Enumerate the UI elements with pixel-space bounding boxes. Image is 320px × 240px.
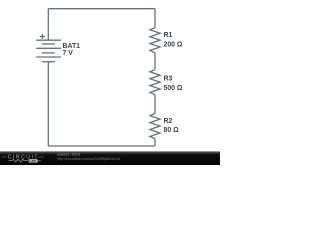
svg-text:R1: R1 xyxy=(164,32,173,39)
footer credit line xyxy=(57,153,80,157)
wire right middle 2 xyxy=(154,95,156,114)
label 80 ohm xyxy=(164,127,180,134)
label 7 V xyxy=(63,50,74,57)
svg-text:80 Ω: 80 Ω xyxy=(164,127,180,134)
svg-text:R3: R3 xyxy=(164,76,173,83)
svg-text:200 Ω: 200 Ω xyxy=(164,42,183,49)
wire right upper xyxy=(154,9,156,28)
footer bar xyxy=(0,151,220,165)
footer url line xyxy=(57,157,120,161)
resistor R3 xyxy=(150,70,160,95)
CircuitLab logo tail wire xyxy=(38,160,41,162)
resistor R2 xyxy=(150,114,160,139)
svg-text:500 Ω: 500 Ω xyxy=(164,85,183,92)
wire top rail xyxy=(48,8,155,10)
label R2 xyxy=(164,118,173,125)
wire right middle 1 xyxy=(154,53,156,70)
label 200 ohm xyxy=(164,42,183,49)
label R1 xyxy=(164,32,173,39)
CircuitLab logo CIRCUIT xyxy=(8,155,39,161)
CircuitLab logo zigzag xyxy=(9,159,29,162)
battery BAT1 xyxy=(36,40,61,62)
CircuitLab logo side wires xyxy=(2,156,44,158)
svg-text:http://circuitlab.com/cs/3c35f: http://circuitlab.com/cs/3c35fy6bk2m2s xyxy=(57,157,120,161)
label BAT1 xyxy=(63,43,81,50)
battery plus sign xyxy=(40,34,45,39)
wire bottom rail xyxy=(48,145,155,147)
resistor R1 xyxy=(150,28,160,53)
wire right lower xyxy=(154,139,156,146)
wire left upper (battery + lead) xyxy=(47,9,49,41)
svg-text:LAB: LAB xyxy=(29,159,36,163)
CircuitLab logo LAB box xyxy=(29,159,38,163)
label R3 xyxy=(164,76,173,83)
CircuitLab logo LAB xyxy=(29,159,36,163)
svg-text:7 V: 7 V xyxy=(63,50,74,57)
label 500 ohm xyxy=(164,85,183,92)
svg-text:R2: R2 xyxy=(164,118,173,125)
wire left lower xyxy=(47,62,49,146)
svg-text:BAT1: BAT1 xyxy=(63,43,81,50)
